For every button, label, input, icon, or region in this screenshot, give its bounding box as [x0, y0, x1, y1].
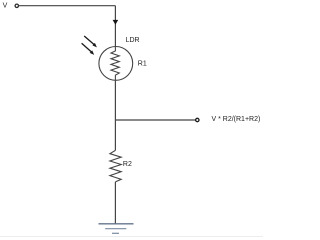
svg-text:LDR: LDR [126, 37, 140, 44]
resistor R2 [110, 150, 121, 182]
svg-text:R1: R1 [138, 61, 147, 68]
wire output horizontal [115, 119, 195, 121]
ground [99, 224, 134, 234]
svg-text:R2: R2 [123, 161, 132, 168]
current direction arrow [113, 20, 119, 25]
terminal output [196, 118, 199, 121]
svg-text:V * R2/(R1+R2): V * R2/(R1+R2) [212, 116, 261, 123]
wire top horizontal [19, 5, 116, 7]
terminal V [15, 4, 18, 7]
faint bottom divider [0, 236, 263, 238]
photoresistor LDR R1 [99, 46, 133, 80]
svg-text:V: V [3, 2, 8, 9]
wire bottom vertical [114, 182, 116, 224]
wire top vertical [114, 6, 116, 47]
light arrow 1 [84, 36, 97, 47]
wire middle vertical [114, 81, 116, 151]
light arrow 2 [82, 43, 95, 55]
